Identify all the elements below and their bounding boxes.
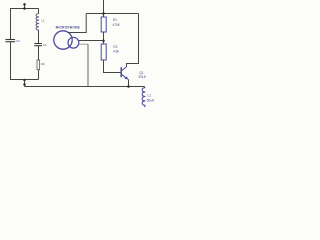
node junction base divider bbox=[102, 40, 105, 43]
svg-text:R2: R2 bbox=[113, 45, 117, 49]
wire mic lower terminal to ground bus bbox=[79, 43, 88, 45]
svg-text:4.6k: 4.6k bbox=[113, 50, 119, 54]
wire R3 to bottom rail bbox=[38, 70, 40, 80]
wire top rail of tank bbox=[10, 8, 39, 10]
wire R2 to base bbox=[104, 60, 121, 73]
node terminal stub top bbox=[23, 3, 26, 8]
resistor R1 bbox=[101, 17, 121, 32]
wire C1 to R3 bbox=[38, 46, 40, 60]
wire emitter to bus bbox=[128, 79, 130, 86]
wire stub to lower bus bbox=[24, 80, 26, 87]
wire R1 to R2 bbox=[103, 32, 105, 44]
wire left vertical upper bbox=[10, 9, 12, 40]
svg-text:9018: 9018 bbox=[138, 75, 145, 79]
wire left vertical lower bbox=[10, 42, 12, 80]
svg-text:C2: C2 bbox=[16, 39, 20, 43]
wire lower ground bus bbox=[25, 86, 145, 88]
svg-text:56uH: 56uH bbox=[147, 98, 155, 102]
svg-text:C1: C1 bbox=[43, 43, 47, 47]
node junction emitter bbox=[127, 85, 130, 88]
resistor R2 bbox=[101, 44, 119, 60]
inductor L1 (emitter choke) bbox=[142, 87, 155, 108]
wire collector to rail bbox=[127, 14, 139, 67]
svg-text:L1: L1 bbox=[41, 18, 45, 22]
resistor R3 bbox=[37, 60, 45, 70]
transistor Q1 bbox=[121, 66, 146, 79]
svg-text:L1: L1 bbox=[148, 94, 152, 98]
svg-text:R3: R3 bbox=[41, 62, 45, 66]
wire right top rail bbox=[86, 13, 138, 15]
capacitor C1 bbox=[34, 43, 47, 47]
wire mic output to divider bbox=[78, 40, 103, 42]
node stub dot bbox=[23, 83, 26, 86]
inductor L1 (tank coil) bbox=[36, 9, 45, 31]
microphone MK1 body bbox=[54, 25, 80, 49]
node junction supply bbox=[102, 12, 105, 15]
node junction bottom rail bbox=[23, 79, 26, 82]
node junction top rail bbox=[23, 7, 26, 10]
wire mic top to right rail bbox=[68, 14, 86, 33]
wire supply feed from top edge bbox=[103, 0, 105, 17]
capacitor C2 bbox=[6, 39, 20, 43]
svg-text:MICROPHONE: MICROPHONE bbox=[56, 25, 80, 29]
svg-text:470K: 470K bbox=[113, 23, 121, 27]
wire bottom rail of tank bbox=[10, 79, 39, 81]
svg-text:R1: R1 bbox=[113, 18, 117, 22]
wire coil to C1 bbox=[38, 30, 40, 43]
